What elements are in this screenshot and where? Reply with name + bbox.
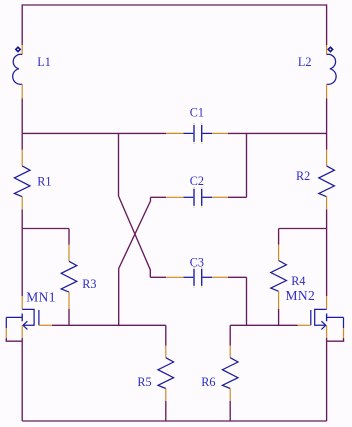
capacitor C1 lead left xyxy=(184,132,194,134)
wire MN1 gate loop pin segment xyxy=(5,328,7,338)
capacitor C1 lead right xyxy=(202,132,212,134)
wire right low horizontal xyxy=(230,324,298,326)
svg-text:C3: C3 xyxy=(190,255,204,269)
inductor L2 pin top xyxy=(326,45,328,55)
resistor R3 pin bottom xyxy=(68,292,70,309)
resistor R3 pin top xyxy=(68,245,70,262)
svg-text:C1: C1 xyxy=(190,106,204,120)
resistor R2 pin top xyxy=(326,150,328,166)
transistor MN2 gate stub xyxy=(327,316,344,318)
wire MN1 gate loop left lower xyxy=(5,338,7,341)
wire right mid horizontal xyxy=(279,228,327,230)
capacitor C1 plate right xyxy=(201,125,203,142)
wire C2-right riser xyxy=(246,133,248,197)
inductor L2 body xyxy=(327,54,337,84)
resistor R4 body xyxy=(271,261,287,292)
resistor R3 body xyxy=(61,261,77,292)
wire row1 left segment xyxy=(22,132,166,134)
wire left bus row1 to R1 xyxy=(21,133,23,149)
resistor R5 pin bottom xyxy=(165,389,167,402)
capacitor C1 pin left xyxy=(166,132,184,134)
capacitor C3 pin left xyxy=(166,276,184,278)
resistor R6 pin bottom xyxy=(229,389,231,402)
inductor L1 pin top xyxy=(21,45,23,55)
transistor MN1 bulk pin xyxy=(39,324,52,326)
inductor L2 pin bottom xyxy=(326,84,328,98)
wire left bus MN1 to bottom rail xyxy=(21,338,23,421)
resistor R6 body xyxy=(222,358,238,389)
inductor L1 pin bottom xyxy=(21,84,23,98)
transistor MN1 source pin xyxy=(21,325,23,338)
transistor MN1 bulk bar xyxy=(38,310,40,325)
wire R6 top drop xyxy=(229,325,231,345)
wire right bus L2 to row1 xyxy=(326,99,328,150)
wire MN2 gate loop bottom xyxy=(327,340,345,342)
capacitor C3 lead left xyxy=(184,276,194,278)
capacitor C2 lead left xyxy=(184,196,194,198)
wire right bus upper xyxy=(326,4,328,45)
svg-text:MN2: MN2 xyxy=(286,288,316,303)
transistor MN2 source arrow xyxy=(321,321,325,329)
wire MN2 gate loop right lower xyxy=(343,338,345,341)
resistor R1 pin top xyxy=(21,150,23,166)
wire R4 top drop xyxy=(278,229,280,245)
capacitor C3 plate tip marks xyxy=(193,268,202,287)
svg-text:R2: R2 xyxy=(296,169,310,183)
wire top rail xyxy=(22,4,326,6)
resistor R4 pin bottom xyxy=(278,291,280,309)
svg-text:R4: R4 xyxy=(291,274,305,288)
wire row3 right segment xyxy=(228,276,247,278)
wire R3 top drop xyxy=(68,229,70,245)
wire right bus R2 to MN2 xyxy=(326,210,328,297)
resistor R5 body xyxy=(158,358,174,389)
capacitor C3 pin right xyxy=(212,276,228,278)
transistor MN1 gate bar xyxy=(21,314,23,322)
resistor R2 body xyxy=(319,166,335,197)
wire right bus MN2 to bottom rail xyxy=(326,338,328,421)
inductor L2 polarity diamond xyxy=(328,47,332,51)
svg-text:C2: C2 xyxy=(190,174,204,188)
transistor MN2 bulk bar xyxy=(310,310,312,325)
wire bottom rail xyxy=(22,420,326,422)
resistor R6 pin top xyxy=(229,346,231,358)
capacitor C1 plate left xyxy=(193,125,195,142)
capacitor C3 lead right xyxy=(202,276,212,278)
wire R6 bottom drop xyxy=(229,401,231,421)
wire left low horizontal xyxy=(52,324,166,326)
wire R3 bottom drop xyxy=(68,309,70,325)
resistor R1 pin bottom xyxy=(21,197,23,210)
transistor MN1 gate stub xyxy=(6,316,22,318)
capacitor C2 plate right xyxy=(201,189,203,206)
capacitor C2 plate left xyxy=(193,189,195,206)
resistor R2 pin bottom xyxy=(326,197,328,210)
transistor MN2 gate bar xyxy=(326,314,328,322)
transistor MN2 drain pin xyxy=(326,296,328,309)
wire R5 top drop xyxy=(165,325,167,345)
svg-text:MN1: MN1 xyxy=(26,289,56,304)
wire MN1 gate loop bottom xyxy=(6,340,23,342)
wire row3 left segment xyxy=(150,276,166,278)
capacitor C2 pin right xyxy=(212,196,228,198)
resistor R5 pin top xyxy=(165,346,167,358)
wire row2 left segment xyxy=(151,196,167,198)
svg-text:L2: L2 xyxy=(298,55,312,69)
capacitor C2 pin left xyxy=(166,196,184,198)
wire R4 bottom drop xyxy=(278,309,280,325)
capacitor C3 plate left xyxy=(193,269,195,286)
wire MN2 gate loop pin segment xyxy=(343,328,345,338)
wire left bus R1 to MN1 xyxy=(21,210,23,297)
wire X diagonal D1 xyxy=(119,196,151,277)
transistor MN1 drain pin xyxy=(21,296,23,309)
svg-text:R1: R1 xyxy=(37,174,51,188)
wire X-drop left upper xyxy=(118,133,120,196)
resistor R1 body xyxy=(14,166,30,197)
inductor L1 body xyxy=(13,54,23,84)
wire R5 bottom drop xyxy=(165,401,167,421)
svg-text:R5: R5 xyxy=(137,375,151,389)
transistor MN2 bulk pin xyxy=(298,324,311,326)
transistor MN2 source pin xyxy=(326,325,328,338)
transistor MN2 channel bracket xyxy=(315,309,327,325)
transistor MN1 channel bracket xyxy=(22,309,34,325)
wire X diagonal D2 xyxy=(119,197,151,325)
wire left bus L1 to row1 xyxy=(21,99,23,135)
capacitor C1 pin right xyxy=(212,132,228,134)
capacitor C3 plate right xyxy=(201,269,203,286)
wire row1 right segment xyxy=(228,132,327,134)
capacitor C1 plate tip marks xyxy=(193,124,202,143)
svg-text:R6: R6 xyxy=(201,375,215,389)
wire C3-right drop xyxy=(246,277,248,325)
svg-text:L1: L1 xyxy=(37,55,51,69)
wire left mid horizontal xyxy=(22,228,69,230)
transistor MN1 source arrow xyxy=(23,321,27,329)
wire MN2 gate loop right upper xyxy=(343,317,345,328)
capacitor C2 plate tip marks xyxy=(193,188,202,207)
wire left bus upper xyxy=(21,4,23,45)
svg-text:R3: R3 xyxy=(82,277,96,291)
wire MN1 gate loop left upper xyxy=(5,317,7,328)
wire row2 right segment xyxy=(228,196,247,198)
capacitor C2 lead right xyxy=(202,196,212,198)
inductor L1 polarity diamond xyxy=(16,47,20,51)
resistor R4 pin top xyxy=(278,245,280,261)
